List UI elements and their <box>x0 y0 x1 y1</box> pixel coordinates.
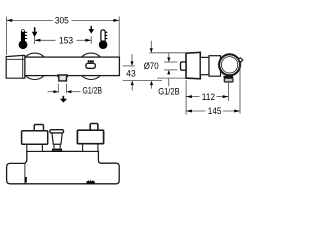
svg-text:43: 43 <box>126 68 135 78</box>
svg-text:G1/2B: G1/2B <box>83 86 103 96</box>
svg-text:G1/2B: G1/2B <box>158 86 180 96</box>
svg-text:112: 112 <box>202 92 215 102</box>
svg-text:305: 305 <box>55 16 69 26</box>
svg-text:145: 145 <box>208 106 222 116</box>
svg-text:153: 153 <box>59 36 73 46</box>
svg-text:Ø70: Ø70 <box>144 61 159 71</box>
